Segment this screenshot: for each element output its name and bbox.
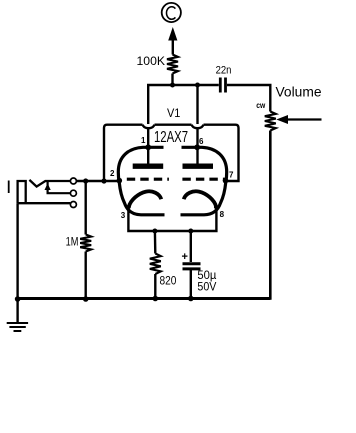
pin 6 dot [194,144,200,150]
cathode V1a [129,191,162,207]
wire: 1M top lead [84,181,86,235]
node C supply symbol [162,3,181,22]
wire: ground stem [16,299,18,323]
grid V1a (dashed) [127,178,169,181]
cathode junction dot left [126,205,130,209]
svg-text:1: 1 [141,136,146,145]
input jack J1 sleeve body [18,181,71,203]
wire: cap to volume pot top [227,85,270,112]
svg-text:1M: 1M [66,235,79,249]
pin 2 dot [117,178,123,184]
svg-text:12AX7: 12AX7 [154,129,188,146]
svg-text:cw: cw [256,101,266,110]
pot wiper arrow [276,115,321,124]
arrow to supply node C [168,27,177,55]
wire: 1M bottom lead [84,252,86,299]
junction dot jack/1M [83,178,88,183]
wire: bracket to 820 [154,231,157,254]
svg-text:100K: 100K [137,56,166,68]
svg-text:3: 3 [121,211,126,220]
cathode junction dot right [214,205,218,209]
junction dot top rail at pin6 branch [195,83,200,88]
resistor R1 100K [137,55,179,74]
svg-text:Volume: Volume [276,84,322,99]
tube V1 envelope left shell [118,147,164,215]
svg-text:V1: V1 [167,106,181,120]
wire: 100K bottom lead [171,74,173,86]
pin 7 dot [223,178,229,184]
wire: pot bottom to bottom rail [192,131,270,299]
wire: cathode bracket [128,206,216,231]
ground symbol [7,323,28,331]
plate V1a (bar) [133,163,164,168]
plate V1b (bar) [183,163,214,168]
wire: bracket to 50u cap [190,231,192,262]
svg-text:820: 820 [160,275,177,287]
junction dot bracket right (to 50u) [188,229,193,234]
junction dot bottom at 50u [188,296,194,302]
wire: 50u to bottom rail [190,269,192,299]
junction dot top rail at 100K [170,83,175,88]
wire: grid loop pin2 to pin7 with hops [104,125,239,181]
grid V1b (dashed) [182,178,227,181]
plate V1a lead [147,129,149,164]
wire: pin 6 branch from top rail [196,85,198,124]
input jack tip spring [29,180,70,187]
cathode V1b [184,191,217,207]
junction dot bottom at 1M [83,296,89,302]
input jack terminal circle tip [70,178,76,184]
wire: jack sleeve rail down [16,203,18,298]
svg-text:2: 2 [110,169,115,178]
input jack terminal circle switch [70,190,76,196]
input jack terminal circle sleeve [70,202,76,208]
tube V1 envelope right shell [181,147,227,215]
junction dot bracket left (to 820) [152,229,157,234]
plate V1b lead [196,129,198,164]
wire: 820 to bottom rail [154,274,156,299]
wire: top rail from plate V1a to cap [148,85,219,124]
svg-text:50µ: 50µ [197,270,216,282]
junction dot bottom at ground [15,296,21,302]
resistor 1M [66,235,92,252]
wire: jack tip to grid pin 2 [76,180,120,182]
input jack switch contact arrow [45,182,71,194]
svg-text:8: 8 [220,210,225,219]
junction dot grid tee [101,178,106,183]
input jack label tick [8,181,10,194]
svg-text:7: 7 [229,171,234,180]
pin 1 dot [145,144,151,150]
capacitor 22n [216,65,232,93]
resistor 820 [150,254,177,288]
svg-text:6: 6 [199,137,204,146]
capacitor 50u 50V electrolytic [182,251,217,294]
junction dot bottom at 820 [153,296,159,302]
svg-text:50V: 50V [197,282,216,294]
potentiometer Volume [256,84,321,130]
svg-text:22n: 22n [216,65,232,77]
svg-text:+: + [182,251,188,263]
wire: bottom rail [18,297,271,300]
